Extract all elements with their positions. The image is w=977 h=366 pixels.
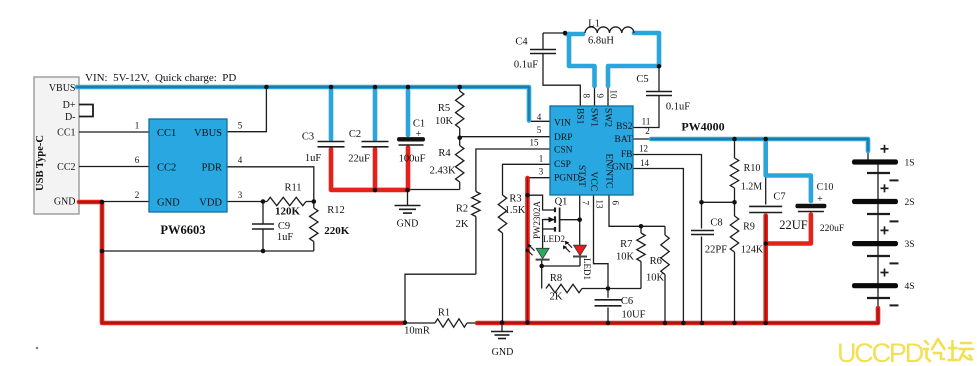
svg-text:10UF: 10UF [622, 310, 646, 321]
svg-text:CSN: CSN [554, 145, 573, 155]
svg-text:D+: D+ [63, 100, 76, 111]
svg-text:R1: R1 [438, 308, 450, 319]
svg-text:13: 13 [595, 200, 605, 210]
svg-text:5: 5 [537, 125, 542, 135]
svg-text:0.1uF: 0.1uF [666, 102, 690, 113]
svg-text:4: 4 [238, 155, 243, 165]
svg-text:1: 1 [135, 121, 140, 131]
svg-text:VIN: VIN [554, 118, 571, 128]
svg-text:6.8uH: 6.8uH [588, 36, 614, 47]
svg-text:BAT: BAT [615, 135, 633, 145]
svg-text:GND: GND [492, 347, 514, 358]
svg-text:R6: R6 [650, 256, 662, 267]
svg-text:VIN: 5V-12V, Quick charge:: VIN: 5V-12V, Quick charge: PD [85, 72, 236, 84]
svg-text:R8: R8 [550, 273, 562, 284]
svg-text:UCCPD: UCCPD [837, 338, 924, 366]
svg-text:22uF: 22uF [348, 154, 370, 165]
svg-text:4: 4 [537, 112, 542, 122]
svg-text:GND: GND [157, 197, 180, 208]
svg-text:R7: R7 [620, 239, 632, 250]
svg-text:2.43K: 2.43K [430, 166, 456, 177]
svg-text:3S: 3S [905, 240, 915, 250]
svg-text:VDD: VDD [199, 197, 222, 208]
svg-text:GND: GND [397, 219, 419, 230]
svg-text:10: 10 [609, 90, 619, 100]
svg-text:CC1: CC1 [157, 128, 176, 139]
svg-text:22UF: 22UF [779, 218, 808, 232]
svg-text:PDR: PDR [202, 162, 222, 173]
svg-text:R11: R11 [284, 183, 301, 194]
svg-text:FB: FB [621, 150, 633, 160]
svg-text:USB Type-C: USB Type-C [35, 135, 46, 191]
svg-text:10K: 10K [435, 116, 454, 127]
svg-text:2: 2 [135, 190, 140, 200]
svg-text:220uF: 220uF [820, 224, 844, 234]
svg-text:R2: R2 [456, 204, 468, 215]
svg-text:124K: 124K [741, 245, 764, 256]
svg-text:3: 3 [539, 167, 544, 177]
svg-text:R3: R3 [509, 193, 521, 204]
svg-text:C3: C3 [302, 132, 314, 143]
svg-text:2K: 2K [550, 292, 563, 303]
svg-text:120K: 120K [275, 206, 301, 218]
svg-text:PW6603: PW6603 [160, 223, 205, 237]
svg-text:6: 6 [135, 155, 140, 165]
svg-text:LED2: LED2 [543, 234, 565, 244]
svg-text:BS1: BS1 [575, 108, 585, 125]
svg-text:C6: C6 [621, 296, 633, 307]
svg-text:5: 5 [238, 121, 243, 131]
svg-text:15: 15 [530, 138, 540, 148]
svg-text:7: 7 [581, 201, 591, 206]
svg-text:PW2302A: PW2302A [532, 201, 542, 240]
svg-text:VBUS: VBUS [194, 128, 222, 139]
svg-text:C9: C9 [278, 221, 290, 232]
svg-text:8: 8 [582, 94, 592, 99]
svg-text:STAT: STAT [576, 165, 586, 187]
svg-text:2S: 2S [905, 198, 915, 208]
svg-text:C2: C2 [349, 129, 361, 140]
svg-text:Q1: Q1 [555, 197, 568, 208]
svg-text:R4: R4 [438, 148, 451, 159]
svg-text:4S: 4S [905, 282, 915, 292]
svg-text:CC2: CC2 [157, 162, 176, 173]
svg-text:LED1: LED1 [582, 258, 592, 280]
svg-text:GND: GND [54, 197, 76, 208]
svg-text:+: + [416, 129, 422, 140]
svg-text:6: 6 [611, 201, 621, 206]
svg-text:10K: 10K [616, 252, 635, 263]
svg-text:2K: 2K [456, 219, 469, 230]
svg-text:CSP: CSP [554, 160, 571, 170]
svg-text:9: 9 [595, 94, 605, 99]
svg-text:DRP: DRP [554, 133, 572, 143]
svg-text:CC1: CC1 [57, 128, 75, 139]
svg-text:C7: C7 [773, 192, 785, 203]
svg-text:D-: D- [65, 112, 76, 123]
svg-text:C1: C1 [413, 119, 425, 130]
svg-text:2: 2 [645, 126, 650, 136]
svg-text:1: 1 [539, 154, 544, 164]
svg-text:R12: R12 [327, 205, 345, 216]
svg-text:BS2: BS2 [616, 122, 633, 132]
svg-text:11: 11 [642, 117, 651, 127]
svg-text:+: + [817, 194, 823, 205]
svg-text:C8: C8 [710, 218, 722, 229]
svg-text:14: 14 [640, 158, 650, 168]
svg-text:PW4000: PW4000 [681, 120, 724, 134]
svg-text:22PF: 22PF [705, 245, 727, 256]
svg-text:3: 3 [238, 190, 243, 200]
svg-text:CC2: CC2 [57, 162, 75, 173]
svg-text:EN/NTC: EN/NTC [604, 154, 615, 189]
svg-text:R9: R9 [743, 222, 755, 233]
svg-text:1uF: 1uF [277, 232, 294, 243]
svg-text:10mR: 10mR [404, 326, 430, 337]
svg-text:SW2: SW2 [603, 108, 613, 127]
svg-text:1uF: 1uF [305, 153, 322, 164]
svg-text:10K: 10K [646, 273, 665, 284]
svg-text:1.2M: 1.2M [741, 182, 763, 193]
svg-text:1.5K: 1.5K [505, 205, 526, 216]
svg-text:1S: 1S [905, 159, 915, 169]
svg-text:SW1: SW1 [589, 108, 599, 127]
svg-text:C5: C5 [636, 74, 648, 85]
svg-text:VCC: VCC [588, 172, 598, 192]
svg-text:C4: C4 [515, 37, 528, 48]
svg-text:R5: R5 [438, 103, 450, 114]
svg-text:VBUS: VBUS [49, 83, 76, 94]
svg-text:C10: C10 [817, 182, 834, 193]
svg-text:100uF: 100uF [399, 154, 426, 165]
svg-text:220K: 220K [324, 225, 350, 237]
svg-text:12: 12 [639, 143, 648, 153]
svg-text:0.1uF: 0.1uF [514, 60, 538, 71]
svg-text:R10: R10 [744, 163, 761, 174]
